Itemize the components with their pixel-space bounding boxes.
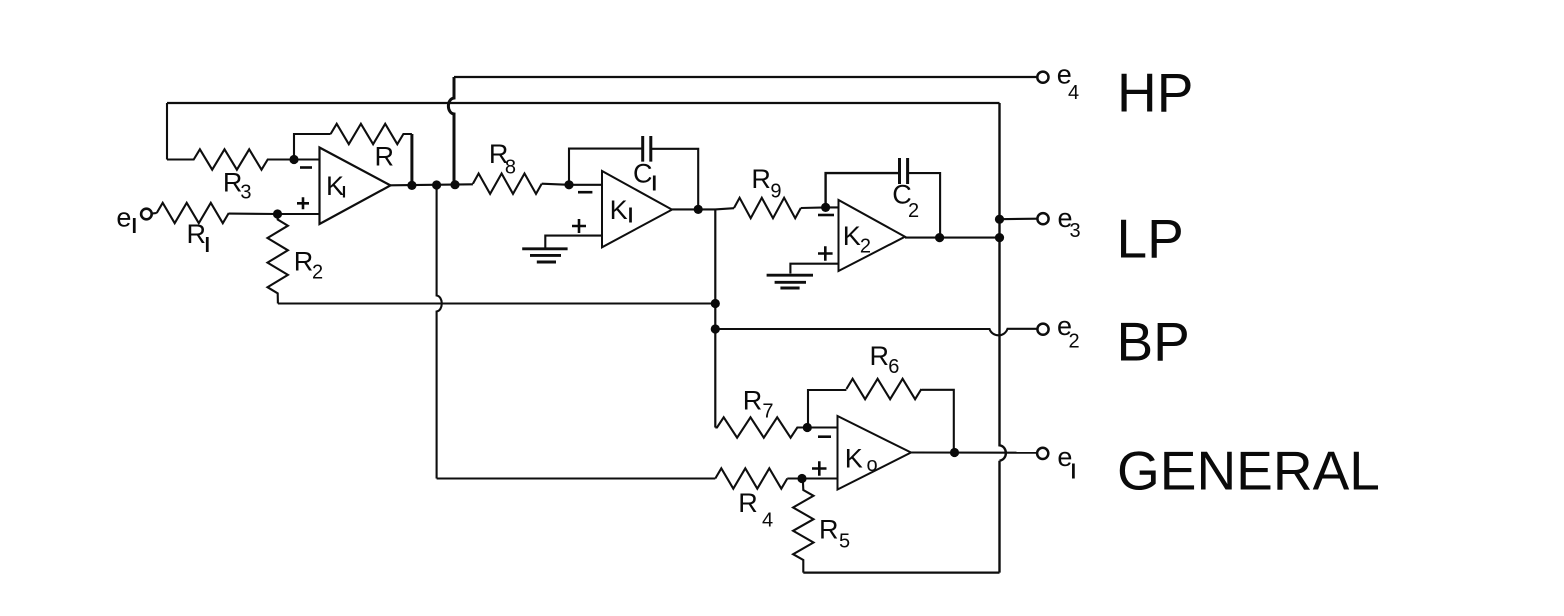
svg-text:2: 2 bbox=[860, 235, 871, 257]
wire: R9 to K2 minus node bbox=[801, 206, 839, 209]
svg-text:K: K bbox=[845, 444, 863, 474]
resistor R2 bbox=[268, 214, 288, 304]
resistor R8 bbox=[473, 174, 542, 194]
wire: minus node up and right to feedback resistor R bbox=[294, 134, 331, 160]
terminal e3 bbox=[1037, 213, 1048, 224]
svg-text:4: 4 bbox=[762, 510, 773, 532]
wire: R7 node to K_o minus input bbox=[807, 426, 837, 428]
ground under K1 bbox=[522, 249, 567, 262]
svg-text:2: 2 bbox=[1069, 331, 1080, 353]
resistor R4 bbox=[715, 468, 787, 488]
svg-text:e: e bbox=[116, 203, 131, 233]
wire: R2 bottom to BP node line y=303.5 bbox=[278, 302, 715, 304]
svg-text:l: l bbox=[132, 216, 138, 238]
wire: left vertical down to R3 bbox=[166, 103, 168, 160]
wire: C2 right to K2 output bbox=[907, 173, 940, 238]
wire: K1 plus input to ground bbox=[545, 236, 602, 248]
wire: vertical from output node down to R4 row, hop over y=303.5 bbox=[437, 185, 442, 479]
wire: second feedback line y=103 bbox=[167, 102, 1000, 104]
svg-text:8: 8 bbox=[505, 156, 516, 178]
wire: K2 output to right vertical bbox=[905, 237, 1000, 239]
svg-text:l: l bbox=[652, 174, 658, 196]
node dot: R1/R2 plus junction bbox=[273, 209, 282, 218]
wire: R6 right down to K_o output bbox=[921, 390, 953, 453]
minus sign K_i bbox=[300, 166, 312, 169]
node dot: BP line junction with e2 line bbox=[711, 324, 720, 333]
svg-text:2: 2 bbox=[908, 200, 919, 222]
resistor R6 bbox=[846, 379, 921, 399]
wire: R right end down to K_i output bbox=[410, 134, 413, 185]
node dot: K2 minus junction bbox=[821, 203, 830, 212]
wire: e3 terminal lead bbox=[1000, 218, 1038, 221]
terminal e2 bbox=[1037, 324, 1048, 335]
node dot: K_o plus junction bbox=[797, 474, 806, 483]
node dot: e3 lower on right vertical bbox=[995, 233, 1004, 242]
node dot: K_o minus junction bbox=[803, 423, 812, 432]
op-amp U3 K2 triangle bbox=[839, 200, 906, 271]
wire: R4 row from left vertical bbox=[437, 477, 716, 479]
svg-text:o: o bbox=[867, 454, 878, 476]
svg-text:R: R bbox=[375, 141, 395, 171]
svg-text:5: 5 bbox=[839, 531, 850, 553]
svg-text:l: l bbox=[1071, 462, 1077, 484]
node dot: K1 output C1 junction bbox=[694, 205, 703, 214]
resistor R (feedback over K_i) bbox=[331, 124, 412, 144]
wire: BP line to e2 terminal bbox=[715, 329, 1037, 336]
svg-text:l: l bbox=[628, 206, 634, 228]
wire: vertical from K_i output up to HP line with hop over y=103 line bbox=[448, 77, 454, 185]
svg-text:R: R bbox=[870, 341, 890, 371]
svg-text:3: 3 bbox=[240, 181, 251, 203]
node dot: K_o output R6 junction bbox=[950, 448, 959, 457]
svg-text:R: R bbox=[819, 515, 839, 545]
svg-text:R: R bbox=[751, 164, 771, 194]
node dot: output to R4 branch bbox=[432, 180, 441, 189]
minus sign K1 bbox=[578, 191, 592, 194]
node dot: K2 output C2 junction bbox=[935, 233, 944, 242]
wire: top HP line y=77 bbox=[454, 76, 1037, 78]
wire: K1 output down to BP rows and R7 bbox=[714, 209, 716, 427]
capacitor C1 bbox=[643, 136, 651, 162]
wire: C1 loop left vertical and top bbox=[569, 149, 642, 185]
wire: R4 to K_o plus node bbox=[787, 477, 837, 479]
svg-text:BP: BP bbox=[1117, 310, 1190, 372]
wire: K1 output to R9 bbox=[672, 208, 734, 209]
wire: bottom line from R5 to right vertical bbox=[803, 571, 999, 573]
plus sign K1 bbox=[572, 219, 586, 233]
wire: R1 to + node bbox=[229, 213, 278, 215]
resistor R9 bbox=[734, 198, 801, 218]
svg-text:HP: HP bbox=[1117, 61, 1193, 123]
node dot: output to HP branch bbox=[450, 180, 459, 189]
node dot: BP line junction with R2 line bbox=[711, 299, 720, 308]
svg-text:K: K bbox=[610, 195, 628, 225]
svg-text:7: 7 bbox=[762, 401, 773, 423]
minus sign K_o bbox=[818, 435, 831, 438]
wire: R8 to K1 minus node bbox=[542, 184, 602, 185]
svg-text:LP: LP bbox=[1117, 208, 1184, 270]
svg-text:3: 3 bbox=[1070, 220, 1081, 242]
plus sign K_o bbox=[812, 461, 827, 476]
minus sign K2 bbox=[818, 214, 834, 217]
resistor R1 bbox=[157, 203, 229, 223]
wire: right vertical x=999.5 from top line down to bottom, hops at e2,e1 bbox=[1000, 103, 1006, 573]
svg-text:4: 4 bbox=[1068, 82, 1079, 104]
wire: K_i output row to R8 bbox=[391, 184, 473, 185]
resistor R3 bbox=[167, 149, 294, 169]
wire: C2 loop left vertical and top bbox=[826, 173, 900, 207]
node dot: K_i output R feedback bbox=[407, 181, 416, 190]
node dot: R3 minus junction bbox=[289, 155, 298, 164]
resistor R7 bbox=[715, 417, 807, 437]
wire: R6 loop left vertical and top bbox=[808, 390, 846, 428]
resistor R5 bbox=[793, 479, 813, 573]
svg-text:R: R bbox=[738, 488, 758, 518]
node dot: e3 upper on right vertical bbox=[995, 215, 1004, 224]
svg-text:GENERAL: GENERAL bbox=[1117, 440, 1380, 502]
svg-text:2: 2 bbox=[312, 262, 323, 284]
plus sign K2 bbox=[818, 246, 833, 261]
wire: K_o output to e1 terminal bbox=[911, 451, 1038, 453]
ground under K2 bbox=[767, 275, 813, 288]
svg-text:C: C bbox=[633, 158, 653, 188]
terminal e4 bbox=[1037, 72, 1048, 83]
svg-text:l: l bbox=[205, 235, 211, 257]
wire: R3 node to K_i minus input bbox=[294, 158, 320, 160]
terminal e_i bbox=[141, 209, 152, 220]
op-amp U1 K_i triangle bbox=[320, 148, 391, 225]
plus sign K_i bbox=[297, 197, 309, 209]
svg-text:K: K bbox=[843, 221, 861, 251]
svg-text:9: 9 bbox=[770, 181, 781, 203]
wire: C1 right to K1 output bbox=[651, 149, 699, 210]
capacitor C2 bbox=[900, 158, 908, 184]
op-amp U4 K_o triangle bbox=[838, 416, 912, 490]
wire: e_i to R1 bbox=[152, 212, 157, 215]
wire: K2 plus input to ground bbox=[790, 264, 838, 274]
svg-text:R: R bbox=[187, 219, 207, 249]
svg-text:R: R bbox=[743, 386, 763, 416]
wire: + node to K_i plus input bbox=[278, 213, 321, 215]
op-amp U2 K1 triangle bbox=[602, 171, 672, 247]
terminal e1 bbox=[1037, 448, 1048, 459]
svg-text:6: 6 bbox=[888, 356, 899, 378]
svg-text:l: l bbox=[342, 185, 346, 202]
svg-text:R: R bbox=[294, 247, 314, 277]
node dot: K1 minus junction bbox=[564, 180, 573, 189]
